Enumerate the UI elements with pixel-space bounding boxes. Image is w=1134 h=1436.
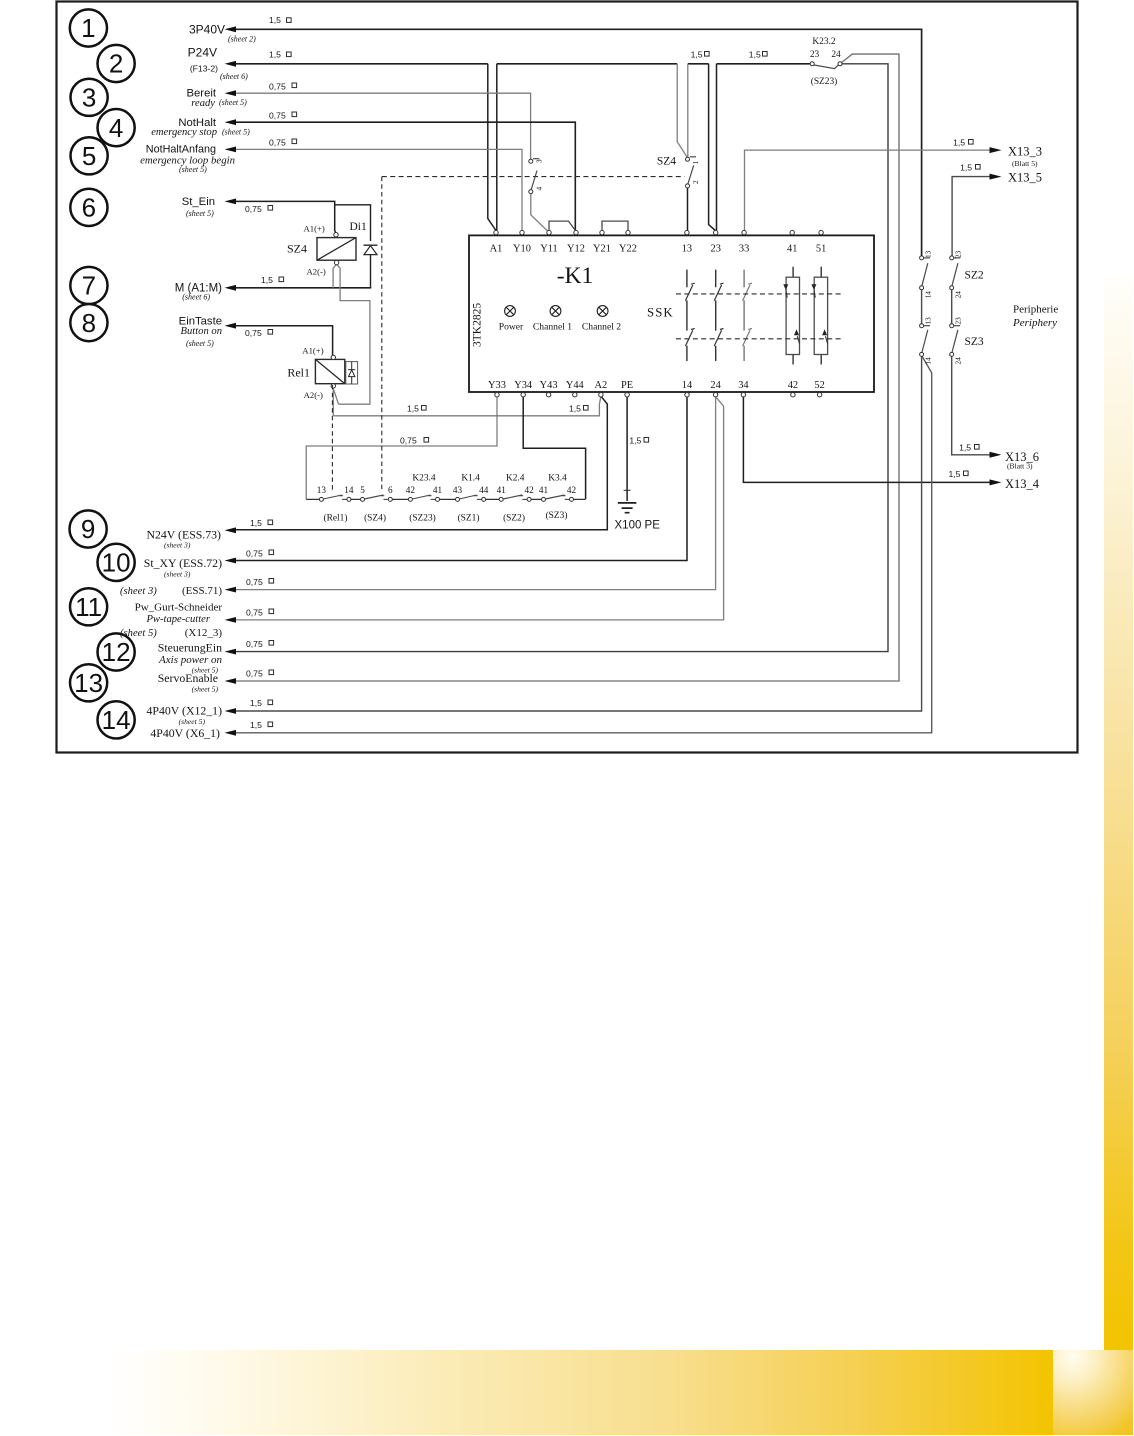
- wire P24V drop to 23 slanted: [709, 64, 716, 231]
- contact SZ chain right 1: [950, 256, 954, 260]
- position balloon 6: [70, 189, 107, 226]
- svg-text:(sheet 3): (sheet 3): [164, 541, 191, 550]
- blade SZ2 right: [952, 263, 958, 286]
- wire Rel1 A2 down to A2 row: [332, 388, 334, 416]
- svg-text:A2: A2: [595, 380, 608, 391]
- arrow 4P40V X6_1: [225, 730, 237, 736]
- wire P24V drop to SZ4 contact straight: [687, 64, 689, 157]
- contact SZ4-12 bottom: [686, 184, 690, 188]
- svg-text:(SZ4): (SZ4): [364, 513, 386, 524]
- K1 mirror contact 51-52: [811, 267, 827, 365]
- svg-text:24: 24: [955, 357, 963, 365]
- svg-text:3P40V: 3P40V: [189, 22, 225, 36]
- wire Bereit to contact 3-4: [236, 93, 531, 159]
- svg-text:43: 43: [453, 485, 463, 495]
- svg-text:3: 3: [82, 83, 96, 113]
- svg-text:23: 23: [955, 250, 963, 258]
- wire PE to ground: [626, 397, 628, 501]
- svg-text:SZ4: SZ4: [657, 156, 676, 168]
- size 0,75 r3 square: [292, 83, 297, 88]
- size 0,75 Y33row square: [424, 438, 429, 443]
- position balloon 8: [70, 304, 107, 341]
- svg-text:(sheet 2): (sheet 2): [228, 35, 256, 44]
- svg-text:24: 24: [831, 50, 841, 60]
- svg-text:Y34: Y34: [514, 380, 533, 391]
- svg-text:X13_3: X13_3: [1008, 144, 1042, 158]
- svg-text:0,75: 0,75: [246, 549, 263, 559]
- svg-text:X100 PE: X100 PE: [615, 519, 661, 531]
- svg-text:Y10: Y10: [513, 244, 531, 255]
- svg-text:P24V: P24V: [188, 46, 217, 60]
- terminal K1 Y34 bottom: [521, 393, 525, 397]
- wire jog to Rel1 A2: [334, 390, 339, 405]
- svg-text:41: 41: [787, 244, 797, 255]
- svg-text:2: 2: [692, 180, 700, 184]
- contact SZ chain left 1: [920, 256, 924, 260]
- size 1,5 r2 square: [287, 52, 292, 57]
- blade SZ3 left: [922, 330, 928, 353]
- yellow corner gradient square: [1053, 1350, 1133, 1435]
- wire Y34 drop to strip right: [523, 397, 585, 499]
- svg-text:1,5: 1,5: [269, 15, 281, 25]
- strip contact 1b: [347, 497, 351, 501]
- strip chain wire: [306, 498, 585, 500]
- svg-text:Rel1: Rel1: [287, 366, 310, 380]
- svg-text:emergency stop: emergency stop: [151, 127, 217, 138]
- terminal K1 Y21 top: [600, 230, 604, 234]
- svg-text:A1(+): A1(+): [302, 346, 323, 356]
- lamp Channel1: [550, 306, 561, 317]
- wire SZ3 right to X13_6: [952, 357, 990, 455]
- wire SZ3 left to 4P40V X12_1: [236, 357, 922, 712]
- svg-text:24: 24: [710, 380, 721, 391]
- size 1,5 A2row left square: [422, 406, 427, 411]
- size 1,5 X13_5 square: [976, 165, 981, 170]
- svg-text:Axis power on: Axis power on: [158, 654, 222, 666]
- position balloon 2: [98, 45, 135, 82]
- yellow bottom band: [106, 1350, 1053, 1435]
- wire X13_5 corner down to SZ2: [952, 177, 990, 256]
- svg-text:0,75: 0,75: [246, 639, 263, 649]
- position balloon 3: [71, 79, 108, 116]
- strip blade 2: [364, 495, 388, 499]
- wire P24V drop to 23 straight: [716, 64, 718, 231]
- arrow 4P40V X12_1: [225, 708, 237, 714]
- arrow X13_3: [990, 147, 1002, 153]
- K1 contact column 33-34: [743, 270, 752, 361]
- svg-text:13: 13: [74, 668, 103, 698]
- svg-text:X13_5: X13_5: [1008, 171, 1042, 185]
- svg-text:4P40V (X12_1): 4P40V (X12_1): [147, 703, 223, 717]
- contact 3-4 top: [529, 159, 533, 163]
- terminal K1 Y43 bottom: [546, 393, 550, 397]
- position balloon 12: [98, 633, 135, 670]
- wire branch to Di1: [335, 205, 371, 241]
- svg-text:1: 1: [81, 13, 95, 43]
- contact 3-4 tick: [533, 158, 539, 160]
- terminal K1 51 top: [819, 230, 823, 234]
- size 1,5 r1 square: [287, 18, 292, 23]
- K1 contact column 13-14: [685, 270, 694, 361]
- terminal K1 14 bottom: [685, 393, 689, 397]
- svg-text:23: 23: [711, 244, 721, 255]
- terminal K1 24 bottom: [713, 393, 717, 397]
- strip contact 5a: [499, 497, 503, 501]
- wire SZ2 left mid: [921, 290, 923, 324]
- size 1,5 top mid1 square: [705, 52, 710, 57]
- svg-text:4: 4: [109, 113, 123, 143]
- wire SZ4 A2 jog down: [337, 265, 370, 405]
- svg-text:1,5: 1,5: [269, 50, 281, 60]
- wire NotHaltAnfang to Y10: [236, 149, 522, 230]
- svg-text:(sheet 5): (sheet 5): [186, 209, 214, 218]
- wire 34 to X13_4: [743, 397, 989, 483]
- svg-text:A1: A1: [490, 244, 503, 255]
- svg-text:Pw_Gurt-Schneider: Pw_Gurt-Schneider: [135, 601, 223, 613]
- svg-text:13: 13: [682, 244, 692, 255]
- svg-text:Channel 2: Channel 2: [582, 322, 621, 333]
- arrow 3P40V: [225, 26, 237, 32]
- svg-text:1,5: 1,5: [569, 404, 581, 414]
- mech link Rel1 to strip contact: [331, 385, 333, 490]
- svg-text:1,5: 1,5: [959, 443, 971, 453]
- terminal K1 42 bottom: [791, 393, 795, 397]
- svg-text:(SZ23): (SZ23): [811, 76, 838, 87]
- strip contact 6a: [542, 497, 546, 501]
- svg-text:(sheet 5): (sheet 5): [219, 98, 247, 107]
- svg-text:Y21: Y21: [593, 244, 611, 255]
- svg-text:7: 7: [82, 271, 96, 301]
- size 0,75 r13 square: [269, 670, 274, 675]
- contact K23.2 pin24: [838, 62, 842, 66]
- relay Rel1 suppressor diode box: [346, 362, 358, 384]
- arrow X13_5: [990, 174, 1002, 180]
- svg-text:0,75: 0,75: [269, 111, 286, 121]
- contact SZ chain left 2: [920, 286, 924, 290]
- svg-text:(sheet 3): (sheet 3): [164, 570, 191, 579]
- svg-text:1: 1: [692, 161, 700, 165]
- svg-text:Y12: Y12: [567, 244, 585, 255]
- wire Di1 cathode to M row: [370, 255, 372, 288]
- svg-text:14: 14: [344, 485, 354, 495]
- svg-text:33: 33: [739, 244, 749, 255]
- wire 33 to X13_3: [745, 150, 991, 230]
- svg-text:3TK2825: 3TK2825: [472, 303, 484, 347]
- strip contact 6b: [570, 497, 574, 501]
- svg-text:13: 13: [925, 250, 933, 258]
- svg-text:-K1: -K1: [557, 263, 594, 289]
- terminal K1 34 bottom: [741, 393, 745, 397]
- svg-text:3: 3: [536, 159, 544, 163]
- wire P24V drop to SZ4 contact slanted: [677, 64, 687, 157]
- strip contact 2b: [388, 497, 392, 501]
- wire K1 A2 to N24V row: [236, 397, 607, 530]
- strip contact 4b: [482, 497, 486, 501]
- terminal SZ4 A1: [334, 233, 338, 237]
- blade SZ3 right: [952, 330, 958, 353]
- contact K23.2 pin23: [810, 62, 814, 66]
- size 1,5 X13_3 square: [969, 140, 974, 145]
- size 1,5 r7 square: [279, 277, 284, 282]
- svg-text:K3.4: K3.4: [548, 474, 567, 484]
- svg-text:(X12_3): (X12_3): [185, 627, 223, 639]
- svg-text:1,5: 1,5: [250, 720, 262, 730]
- svg-text:Periphery: Periphery: [1012, 317, 1057, 329]
- strip contact 3b: [436, 497, 440, 501]
- svg-text:42: 42: [406, 485, 416, 495]
- contact SZ chain right 3: [950, 324, 954, 328]
- svg-text:ready: ready: [191, 98, 215, 109]
- svg-text:5: 5: [82, 141, 96, 171]
- schematic border frame: [57, 2, 1078, 753]
- wire SZ4 A2 to M row: [333, 265, 336, 288]
- svg-text:K2.4: K2.4: [506, 474, 525, 484]
- terminal K1 Y22 top: [626, 230, 630, 234]
- strip contact 2a: [361, 497, 365, 501]
- size 1,5 r14b square: [268, 722, 273, 727]
- svg-text:8: 8: [82, 308, 96, 338]
- position balloon 4: [98, 109, 135, 146]
- svg-text:(ESS.71): (ESS.71): [182, 585, 222, 597]
- terminal K1 A1 top: [494, 230, 498, 234]
- wire P24V drop to A1 straight: [496, 64, 498, 231]
- position balloon 13: [70, 664, 107, 701]
- arrow NotHaltAnfang: [225, 147, 237, 153]
- svg-text:41: 41: [497, 485, 507, 495]
- svg-text:Y11: Y11: [540, 244, 558, 255]
- contact 3-4 blade: [531, 171, 537, 190]
- svg-text:(F13-2): (F13-2): [190, 64, 218, 74]
- strip blade 3: [412, 495, 435, 499]
- wire 24 branch to X12_3: [236, 398, 724, 620]
- ground X100 PE: [618, 490, 637, 512]
- yellow vertical strip right edge: [1104, 276, 1133, 1350]
- svg-text:42: 42: [788, 380, 798, 391]
- svg-text:12: 12: [102, 637, 131, 667]
- svg-text:51: 51: [816, 244, 826, 255]
- svg-text:1,5: 1,5: [960, 163, 972, 173]
- svg-text:(sheet 5): (sheet 5): [179, 717, 206, 726]
- size 0,75 r12 square: [269, 641, 274, 646]
- svg-text:SZ2: SZ2: [965, 269, 984, 281]
- wire SZ2 right mid: [951, 290, 953, 324]
- svg-text:(sheet 5): (sheet 5): [120, 628, 157, 639]
- tick SZ2 left: [924, 257, 930, 259]
- svg-text:6: 6: [388, 485, 393, 495]
- tick SZ3 left: [924, 325, 930, 327]
- relay coil Rel1: [315, 359, 344, 383]
- terminal K1 A2 bottom: [599, 393, 603, 397]
- size 1,5 top mid2 square: [763, 52, 768, 57]
- size 0,75 r11b square: [269, 609, 274, 614]
- svg-text:(SZ23): (SZ23): [409, 513, 436, 524]
- svg-text:1,5: 1,5: [261, 275, 273, 285]
- position balloon 1: [70, 9, 107, 46]
- svg-text:Power: Power: [499, 322, 524, 333]
- svg-text:0,75: 0,75: [400, 436, 417, 446]
- terminal K1 Y33 bottom: [495, 393, 499, 397]
- position balloon 11: [70, 588, 107, 625]
- K1 dashed linkage upper: [676, 293, 842, 295]
- relay coil SZ4: [317, 238, 356, 261]
- size 0,75 r5 square: [292, 139, 297, 144]
- svg-text:34: 34: [738, 380, 749, 391]
- svg-text:Channel 1: Channel 1: [533, 322, 572, 333]
- bridge Y21-Y22: [602, 221, 628, 230]
- svg-text:24: 24: [955, 291, 963, 299]
- svg-text:(sheet 6): (sheet 6): [220, 72, 248, 81]
- arrow St_Ein: [225, 199, 237, 205]
- svg-text:(Rel1): (Rel1): [324, 513, 348, 524]
- svg-text:X13_4: X13_4: [1005, 477, 1040, 491]
- K1 mirror contact 41-42: [783, 267, 799, 365]
- lamp Channel2: [597, 306, 608, 317]
- wire P24V drop to A1 slanted: [488, 64, 496, 231]
- svg-text:5: 5: [360, 485, 365, 495]
- arrow SteuerungEin: [225, 649, 237, 655]
- svg-text:10: 10: [102, 548, 131, 578]
- svg-text:N24V (ESS.73): N24V (ESS.73): [146, 528, 221, 542]
- strip blade 4: [459, 495, 481, 499]
- mech link SZ4 vertical: [381, 177, 383, 490]
- wire M row: [236, 287, 371, 289]
- wire 24 to ESS71: [236, 397, 716, 590]
- arrow ServoEnable: [225, 678, 237, 684]
- size 0,75 r8 square: [268, 330, 273, 335]
- arrow N24V: [225, 527, 237, 533]
- wire A2 row Rel1 to K1 A2: [333, 397, 600, 416]
- contact K23.2 blade: [814, 65, 838, 69]
- svg-text:23: 23: [955, 317, 963, 325]
- contact SZ chain left 4: [920, 352, 924, 356]
- size 1,5 PE square: [644, 438, 649, 443]
- wire P24V horizontal: [236, 63, 810, 65]
- svg-text:14: 14: [925, 291, 933, 299]
- K1 contact column 23-24: [714, 270, 723, 361]
- wire EinTaste to Rel1 A1: [236, 326, 333, 356]
- strip contact 1a: [319, 497, 323, 501]
- contact SZ chain right 4: [950, 352, 954, 356]
- tick SZ3 right: [954, 325, 960, 327]
- position balloon 9: [70, 510, 107, 547]
- bridge Y11-Y12: [549, 221, 575, 230]
- strip blade 1: [323, 495, 347, 499]
- arrow P24V: [225, 61, 237, 67]
- svg-text:Button on: Button on: [181, 326, 223, 337]
- strip blade 5: [503, 495, 527, 499]
- svg-text:1,5: 1,5: [691, 50, 703, 60]
- size 0,75 r6 square: [268, 206, 273, 211]
- svg-text:Pw-tape-cutter: Pw-tape-cutter: [145, 614, 210, 625]
- svg-text:44: 44: [479, 485, 489, 495]
- svg-text:Y22: Y22: [619, 244, 637, 255]
- size 1,5 X13_6 square: [975, 445, 980, 450]
- terminal K1 Y44 bottom: [573, 393, 577, 397]
- terminal K1 Y11 top: [547, 230, 551, 234]
- svg-text:0,75: 0,75: [246, 608, 263, 618]
- svg-text:A2(-): A2(-): [304, 390, 323, 400]
- svg-text:52: 52: [814, 380, 824, 391]
- svg-text:42: 42: [567, 485, 577, 495]
- wire contact 3-4 to Y11: [531, 194, 549, 232]
- svg-text:1,5: 1,5: [749, 50, 761, 60]
- svg-text:(SZ3): (SZ3): [546, 510, 568, 521]
- size 1,5 r9 square: [268, 520, 273, 525]
- size 0,75 r4 square: [292, 112, 297, 117]
- svg-text:4: 4: [536, 187, 544, 191]
- svg-text:St_Ein: St_Ein: [182, 196, 215, 208]
- svg-text:(sheet 5): (sheet 5): [186, 339, 214, 348]
- svg-text:14: 14: [925, 357, 933, 365]
- svg-text:0,75: 0,75: [246, 669, 263, 679]
- terminal SZ4 A2: [334, 260, 338, 264]
- svg-text:A2(-): A2(-): [307, 266, 326, 276]
- terminal K1 Y10 top: [520, 230, 524, 234]
- svg-text:Y43: Y43: [540, 380, 558, 391]
- size 0,75 r11a square: [269, 579, 274, 584]
- contact SZ4-12 blade: [688, 165, 694, 184]
- arrow ESS71: [225, 587, 237, 593]
- svg-text:Peripherie: Peripherie: [1013, 304, 1058, 316]
- svg-text:A1(+): A1(+): [304, 223, 325, 233]
- svg-text:Y33: Y33: [488, 380, 506, 391]
- strip contact 3a: [408, 497, 412, 501]
- arrow Bereit: [225, 90, 237, 96]
- svg-text:Di1: Di1: [350, 221, 368, 233]
- size 1,5 A2row right square: [584, 406, 589, 411]
- svg-text:2: 2: [109, 49, 123, 79]
- svg-text:ServoEnable: ServoEnable: [158, 671, 218, 685]
- svg-text:0,75: 0,75: [246, 577, 263, 587]
- svg-text:Y44: Y44: [566, 380, 585, 391]
- svg-text:(sheet 5): (sheet 5): [179, 165, 207, 174]
- strip contact 4a: [456, 497, 460, 501]
- K1 dashed linkage lower: [676, 338, 842, 340]
- svg-text:SZ3: SZ3: [965, 336, 984, 348]
- wire Y33 drop to strip: [306, 397, 497, 499]
- svg-text:14: 14: [682, 380, 693, 391]
- svg-text:K23.4: K23.4: [412, 474, 435, 484]
- svg-text:13: 13: [317, 485, 327, 495]
- svg-text:0,75: 0,75: [269, 138, 286, 148]
- terminal Rel1 A2: [331, 384, 335, 388]
- position balloon 7: [70, 267, 107, 304]
- wire 3P40V to SZ2 chain: [236, 29, 922, 256]
- size 1,5 r14a square: [268, 700, 273, 705]
- svg-text:PE: PE: [621, 380, 633, 391]
- terminal K1 33 top: [742, 230, 746, 234]
- wire St_Ein to SZ4 A1: [236, 201, 336, 232]
- mech link SZ4 horizontal: [382, 176, 685, 178]
- svg-text:11: 11: [75, 592, 102, 622]
- svg-text:SteuerungEin: SteuerungEin: [158, 640, 222, 654]
- svg-text:St_XY (ESS.72): St_XY (ESS.72): [144, 556, 222, 570]
- wire K23.2 branch to SteuerungEin: [236, 64, 888, 652]
- arrow X13_6: [990, 452, 1002, 458]
- lamp Power: [505, 306, 516, 317]
- terminal K1 23 top: [714, 230, 718, 234]
- svg-text:23: 23: [810, 50, 820, 60]
- svg-text:0,75: 0,75: [269, 82, 286, 92]
- svg-text:13: 13: [925, 317, 933, 325]
- svg-text:K1.4: K1.4: [461, 474, 480, 484]
- size 1,5 X13_4 square: [964, 471, 969, 476]
- wire 14 to St_XY: [236, 397, 687, 561]
- svg-text:9: 9: [81, 514, 95, 544]
- contact SZ chain left 3: [920, 324, 924, 328]
- contact 3-4 bottom: [529, 190, 533, 194]
- blade SZ2 left: [922, 263, 928, 286]
